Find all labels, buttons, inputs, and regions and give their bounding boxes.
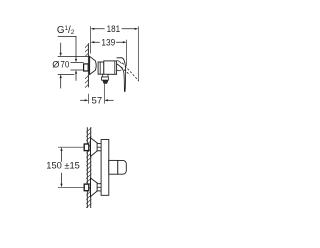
in-wall fitting bottom — [84, 184, 89, 191]
mixer body (bottom view) — [101, 140, 109, 196]
escutcheon bottom (bottom view) — [91, 178, 98, 197]
cartridge knob (bottom view) — [109, 160, 118, 174]
lever handle (closed) — [117, 58, 126, 92]
wall line (top view) — [87, 43, 89, 87]
pipe socket — [84, 64, 89, 71]
wall band (bottom view) — [87, 127, 90, 208]
dimension 181 — [91, 24, 139, 35]
union nut (top view) — [98, 62, 104, 74]
svg-text:150 ±15: 150 ±15 — [46, 161, 80, 172]
svg-text:181: 181 — [107, 24, 121, 35]
svg-text:139: 139 — [101, 38, 115, 49]
mixer body (top view) — [104, 61, 117, 74]
wall hatching (top view) — [85, 44, 88, 87]
svg-text:57: 57 — [92, 96, 103, 107]
escutcheon top (bottom view) — [91, 138, 98, 157]
dimension Ø70 — [52, 43, 89, 89]
union nut bottom (bottom view) — [97, 184, 102, 191]
in-wall fitting top — [84, 144, 89, 151]
svg-text:Ø: Ø — [52, 59, 59, 69]
dimension 150±15 — [46, 147, 83, 187]
escutcheon (top view) — [90, 56, 97, 74]
svg-text:70: 70 — [60, 59, 69, 70]
union nut top (bottom view) — [97, 144, 102, 151]
dimension 139 — [91, 38, 127, 49]
extension line right (181) — [137, 26, 139, 80]
lever open position (dashed) — [121, 63, 139, 81]
extension line left (181/139) — [90, 26, 92, 53]
cartridge cap — [117, 60, 121, 63]
G 1/2 arrow down — [75, 59, 77, 63]
extension line right (139) — [126, 40, 128, 66]
G 1/2 arrow up + shaft — [75, 70, 77, 74]
wall hatching (bottom view) — [86, 128, 91, 208]
hose outlet — [103, 74, 108, 77]
supply pipe lines — [71, 62, 84, 70]
G 1/2 leader line — [58, 36, 76, 58]
dimension 57 — [80, 84, 114, 107]
